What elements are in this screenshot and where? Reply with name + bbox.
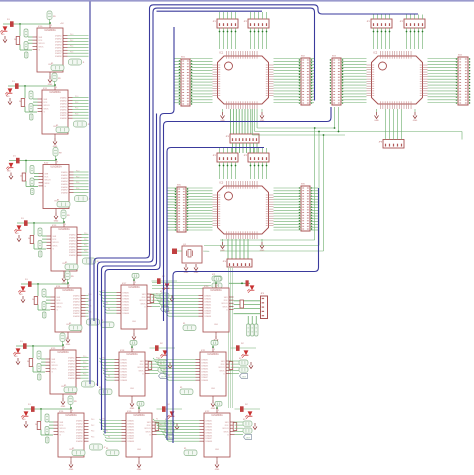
svg-text:P6: P6 — [168, 311, 170, 313]
svg-text:ULN2803A: ULN2803A — [58, 228, 70, 231]
svg-text:SRCLR: SRCLR — [60, 428, 67, 430]
svg-text:P3.6: P3.6 — [84, 251, 87, 253]
svg-text:9: 9 — [69, 285, 70, 287]
svg-text:P1.2: P1.2 — [75, 102, 78, 104]
svg-text:DRAIN5: DRAIN5 — [128, 431, 135, 434]
svg-text:P0: P0 — [156, 419, 158, 421]
svg-text:P2.4: P2.4 — [76, 182, 79, 184]
svg-text:DRAIN1: DRAIN1 — [123, 292, 130, 295]
svg-text:1k: 1k — [32, 299, 34, 301]
svg-text:GND: GND — [69, 469, 74, 471]
svg-text:P6.0: P6.0 — [91, 419, 94, 421]
svg-text:DRAIN5: DRAIN5 — [121, 370, 128, 373]
svg-text:1k: 1k — [28, 238, 30, 240]
svg-text:P2: P2 — [160, 364, 162, 366]
svg-text:GND: GND — [211, 408, 216, 410]
svg-text:SRCK: SRCK — [223, 306, 229, 308]
svg-text:P1.0: P1.0 — [75, 96, 78, 98]
svg-text:9: 9 — [133, 349, 134, 351]
svg-text:9: 9 — [64, 347, 65, 349]
svg-text:DRAIN2: DRAIN2 — [205, 297, 212, 300]
svg-text:DRAIN6: DRAIN6 — [206, 434, 213, 437]
svg-text:9: 9 — [135, 282, 136, 284]
svg-text:DRAIN4: DRAIN4 — [202, 367, 209, 370]
svg-text:DRAIN3: DRAIN3 — [60, 102, 67, 105]
svg-text:DRAIN3: DRAIN3 — [128, 425, 135, 428]
svg-text:SRCLR: SRCLR — [57, 303, 64, 305]
svg-text:DRAIN7: DRAIN7 — [202, 376, 209, 379]
svg-text:DRAIN4: DRAIN4 — [206, 428, 213, 431]
svg-text:1k: 1k — [35, 424, 37, 426]
svg-text:DRAIN8: DRAIN8 — [206, 440, 213, 443]
svg-text:DRAIN3: DRAIN3 — [69, 239, 76, 242]
svg-text:P2.2: P2.2 — [76, 176, 79, 178]
svg-text:P5.0: P5.0 — [83, 356, 86, 358]
svg-text:SRCK: SRCK — [52, 368, 58, 370]
svg-text:DRAIN4: DRAIN4 — [60, 105, 67, 108]
svg-text:DRAIN2: DRAIN2 — [202, 361, 209, 364]
svg-text:IC1: IC1 — [220, 52, 224, 55]
svg-text:P1.4: P1.4 — [75, 108, 78, 110]
svg-text:GND: GND — [260, 250, 265, 252]
svg-text:DRAIN6: DRAIN6 — [73, 309, 80, 312]
svg-text:ULN2803A: ULN2803A — [133, 414, 145, 417]
svg-text:P2.0: P2.0 — [76, 170, 79, 172]
svg-text:GND: GND — [215, 469, 220, 471]
svg-text:P6: P6 — [168, 436, 170, 438]
svg-text:SRCK: SRCK — [141, 303, 147, 305]
svg-text:DRAIN8: DRAIN8 — [128, 440, 135, 443]
svg-text:P4: P4 — [106, 303, 108, 305]
svg-text:DRAIN7: DRAIN7 — [68, 374, 75, 377]
svg-text:ULN2803A: ULN2803A — [57, 351, 69, 354]
svg-text:GND: GND — [194, 272, 199, 274]
svg-text:9: 9 — [72, 410, 73, 412]
svg-text:ULN2803A: ULN2803A — [62, 289, 74, 292]
svg-text:GND: GND — [130, 408, 135, 410]
svg-text:1k: 1k — [20, 176, 22, 178]
svg-text:DRAIN7: DRAIN7 — [128, 437, 135, 440]
svg-text:DRAIN3: DRAIN3 — [121, 364, 128, 367]
svg-text:DRAIN4: DRAIN4 — [55, 43, 62, 46]
svg-text:GND: GND — [137, 469, 142, 471]
svg-text:DRAIN5: DRAIN5 — [60, 108, 67, 111]
svg-text:DRAIN3: DRAIN3 — [61, 177, 68, 180]
svg-text:9: 9 — [218, 410, 219, 412]
svg-text:9: 9 — [56, 87, 57, 89]
svg-text:P2.6: P2.6 — [76, 188, 79, 190]
svg-text:P0.0: P0.0 — [70, 34, 73, 36]
svg-text:DRAIN7: DRAIN7 — [206, 437, 213, 440]
svg-text:SRCLR: SRCLR — [218, 367, 225, 369]
svg-text:SRCK: SRCK — [146, 431, 152, 433]
svg-text:ULN2803A: ULN2803A — [210, 289, 222, 292]
svg-text:J2: J2 — [88, 124, 90, 126]
svg-text:DRAIN1: DRAIN1 — [205, 295, 212, 298]
svg-text:DRAIN6: DRAIN6 — [69, 248, 76, 251]
svg-text:DRAIN2: DRAIN2 — [128, 422, 135, 425]
svg-text:GND: GND — [374, 120, 379, 122]
svg-text:DRAIN5: DRAIN5 — [55, 46, 62, 49]
svg-text:DRAIN3: DRAIN3 — [205, 300, 212, 303]
svg-text:P0: P0 — [103, 358, 105, 360]
svg-text:DRAIN6: DRAIN6 — [76, 434, 83, 437]
svg-text:P0: P0 — [103, 291, 105, 293]
svg-text:DRAIN1: DRAIN1 — [69, 234, 76, 237]
svg-text:DRAIN7: DRAIN7 — [123, 309, 130, 312]
svg-text:DRAIN1: DRAIN1 — [128, 420, 135, 423]
svg-text:DRAIN1: DRAIN1 — [121, 359, 128, 362]
svg-text:DRAIN6: DRAIN6 — [123, 306, 130, 309]
svg-text:P6.6: P6.6 — [91, 437, 94, 439]
svg-text:DRAIN8: DRAIN8 — [60, 117, 67, 120]
svg-text:9: 9 — [51, 25, 52, 27]
svg-text:9: 9 — [140, 410, 141, 412]
svg-text:1k: 1k — [27, 361, 29, 363]
svg-text:DRAIN1: DRAIN1 — [73, 295, 80, 298]
svg-text:ULN2803A: ULN2803A — [65, 414, 77, 417]
svg-text:9: 9 — [57, 162, 58, 164]
svg-text:DRAIN4: DRAIN4 — [205, 303, 212, 306]
svg-text:DRAIN6: DRAIN6 — [61, 186, 68, 189]
svg-text:DRAIN6: DRAIN6 — [55, 49, 62, 52]
svg-text:SRCK: SRCK — [53, 245, 59, 247]
svg-text:GND: GND — [130, 388, 135, 390]
svg-text:DRAIN7: DRAIN7 — [69, 251, 76, 254]
svg-text:ULN2803A: ULN2803A — [207, 353, 219, 356]
svg-text:DRAIN2: DRAIN2 — [61, 174, 68, 177]
svg-text:DRAIN1: DRAIN1 — [60, 97, 67, 100]
svg-text:GND: GND — [137, 449, 142, 451]
svg-text:DRAIN3: DRAIN3 — [206, 425, 213, 428]
svg-text:DRAIN1: DRAIN1 — [206, 420, 213, 423]
svg-text:DRAIN8: DRAIN8 — [205, 315, 212, 318]
svg-text:9: 9 — [214, 349, 215, 351]
svg-text:DRAIN6: DRAIN6 — [121, 373, 128, 376]
svg-text:DRAIN1: DRAIN1 — [61, 171, 68, 174]
svg-text:DRAIN7: DRAIN7 — [61, 189, 68, 192]
svg-text:GND: GND — [184, 272, 189, 274]
svg-text:DRAIN4: DRAIN4 — [68, 365, 75, 368]
svg-text:DRAIN8: DRAIN8 — [73, 315, 80, 318]
svg-text:DRAIN6: DRAIN6 — [68, 371, 75, 374]
svg-text:GND: GND — [214, 324, 219, 326]
svg-text:DRAIN6: DRAIN6 — [205, 309, 212, 312]
svg-text:GND: GND — [54, 221, 59, 223]
svg-text:DRAIN3: DRAIN3 — [55, 40, 62, 43]
svg-text:P1.6: P1.6 — [75, 114, 78, 116]
svg-text:P3.4: P3.4 — [84, 245, 87, 247]
svg-text:DRAIN3: DRAIN3 — [202, 364, 209, 367]
svg-text:DRAIN4: DRAIN4 — [121, 367, 128, 370]
svg-text:DRAIN3: DRAIN3 — [123, 297, 130, 300]
svg-text:P0.2: P0.2 — [70, 40, 73, 42]
svg-text:DRAIN7: DRAIN7 — [55, 52, 62, 55]
svg-text:DRAIN5: DRAIN5 — [61, 183, 68, 186]
svg-text:SRCLR: SRCLR — [39, 43, 46, 45]
svg-text:DRAIN1: DRAIN1 — [55, 35, 62, 38]
svg-text:P4: P4 — [164, 370, 166, 372]
svg-text:GND: GND — [220, 250, 225, 252]
svg-text:P6: P6 — [108, 436, 110, 438]
svg-text:SRCLR: SRCLR — [137, 367, 144, 369]
svg-text:16MHz: 16MHz — [203, 251, 209, 253]
svg-text:P0: P0 — [156, 358, 158, 360]
svg-text:P6.2: P6.2 — [91, 425, 94, 427]
svg-text:SRCK: SRCK — [45, 183, 51, 185]
svg-text:P5.2: P5.2 — [83, 362, 86, 364]
svg-text:DRAIN4: DRAIN4 — [69, 242, 76, 245]
svg-text:DRAIN2: DRAIN2 — [123, 294, 130, 297]
svg-text:ULN2803A: ULN2803A — [50, 166, 62, 169]
svg-text:P6.4: P6.4 — [91, 431, 94, 433]
svg-text:DRAIN3: DRAIN3 — [68, 362, 75, 365]
svg-text:DRAIN1: DRAIN1 — [76, 420, 83, 423]
svg-text:DRAIN7: DRAIN7 — [205, 312, 212, 315]
svg-text:SRCK: SRCK — [220, 370, 226, 372]
svg-text:DRAIN2: DRAIN2 — [73, 297, 80, 300]
svg-text:DRAIN2: DRAIN2 — [69, 236, 76, 239]
svg-text:P0: P0 — [156, 294, 158, 296]
svg-text:DRAIN8: DRAIN8 — [202, 379, 209, 382]
svg-text:GND: GND — [66, 344, 71, 346]
svg-text:P6: P6 — [108, 308, 110, 310]
svg-text:DRAIN5: DRAIN5 — [76, 431, 83, 434]
svg-text:DRAIN1: DRAIN1 — [202, 359, 209, 362]
svg-text:DRAIN6: DRAIN6 — [128, 434, 135, 437]
svg-text:IC3: IC3 — [220, 182, 224, 185]
svg-text:DRAIN8: DRAIN8 — [69, 254, 76, 257]
svg-text:DRAIN8: DRAIN8 — [68, 377, 75, 380]
svg-text:DRAIN5: DRAIN5 — [123, 303, 130, 306]
svg-text:SRCLR: SRCLR — [53, 242, 60, 244]
svg-text:SRCK: SRCK — [57, 306, 63, 308]
svg-text:DRAIN8: DRAIN8 — [55, 55, 62, 58]
svg-text:SRCLR: SRCLR — [45, 180, 52, 182]
svg-text:SRCLR: SRCLR — [221, 303, 228, 305]
svg-text:DRAIN8: DRAIN8 — [123, 312, 130, 315]
svg-text:DRAIN2: DRAIN2 — [121, 361, 128, 364]
svg-text:DRAIN2: DRAIN2 — [60, 99, 67, 102]
svg-text:P0.4: P0.4 — [70, 46, 73, 48]
svg-text:DRAIN7: DRAIN7 — [121, 376, 128, 379]
svg-text:ULN2803A: ULN2803A — [44, 29, 56, 32]
svg-text:SRCK: SRCK — [60, 431, 66, 433]
svg-text:ULN2803A: ULN2803A — [128, 286, 140, 289]
svg-text:GND: GND — [211, 388, 216, 390]
svg-text:P0.6: P0.6 — [70, 52, 73, 54]
svg-text:SRCK: SRCK — [39, 46, 45, 48]
svg-text:SRCK: SRCK — [44, 108, 50, 110]
svg-text:P6: P6 — [108, 375, 110, 377]
svg-text:P4: P4 — [164, 431, 166, 433]
svg-text:SRCLR: SRCLR — [144, 428, 151, 430]
svg-text:1k: 1k — [19, 101, 21, 103]
svg-text:DRAIN2: DRAIN2 — [68, 359, 75, 362]
svg-text:DRAIN7: DRAIN7 — [60, 114, 67, 117]
svg-text:DRAIN5: DRAIN5 — [73, 306, 80, 309]
svg-text:1k: 1k — [14, 39, 16, 41]
svg-text:DRAIN1: DRAIN1 — [68, 357, 75, 360]
svg-text:DRAIN2: DRAIN2 — [55, 37, 62, 40]
svg-text:DRAIN4: DRAIN4 — [76, 428, 83, 431]
svg-text:DRAIN3: DRAIN3 — [73, 300, 80, 303]
svg-text:P5.4: P5.4 — [83, 368, 86, 370]
svg-text:SRCLR: SRCLR — [52, 365, 59, 367]
svg-text:9: 9 — [65, 224, 66, 226]
svg-text:DRAIN2: DRAIN2 — [76, 422, 83, 425]
svg-text:GND: GND — [413, 120, 418, 122]
svg-text:ULN2803A: ULN2803A — [49, 91, 61, 94]
svg-text:SRCK: SRCK — [139, 370, 145, 372]
svg-text:DRAIN4: DRAIN4 — [123, 300, 130, 303]
svg-text:P6: P6 — [168, 375, 170, 377]
svg-text:DRAIN8: DRAIN8 — [61, 192, 68, 195]
svg-text:DRAIN7: DRAIN7 — [76, 437, 83, 440]
svg-text:DRAIN6: DRAIN6 — [202, 373, 209, 376]
svg-text:DRAIN5: DRAIN5 — [205, 306, 212, 309]
svg-text:9: 9 — [217, 285, 218, 287]
svg-text:P4: P4 — [164, 306, 166, 308]
svg-text:P4: P4 — [106, 370, 108, 372]
svg-text:GND: GND — [132, 321, 137, 323]
svg-text:P2: P2 — [160, 300, 162, 302]
svg-text:SRCLR: SRCLR — [222, 428, 229, 430]
svg-text:P4: P4 — [106, 431, 108, 433]
svg-text:DRAIN7: DRAIN7 — [73, 312, 80, 315]
svg-text:GND: GND — [215, 449, 220, 451]
svg-text:ULN2803A: ULN2803A — [211, 414, 223, 417]
svg-text:DRAIN5: DRAIN5 — [202, 370, 209, 373]
svg-text:IC2: IC2 — [374, 52, 378, 55]
svg-text:DRAIN2: DRAIN2 — [206, 422, 213, 425]
svg-text:SRCLR: SRCLR — [139, 300, 146, 302]
svg-text:DRAIN8: DRAIN8 — [121, 379, 128, 382]
svg-text:DRAIN5: DRAIN5 — [68, 368, 75, 371]
svg-text:SRCK: SRCK — [224, 431, 230, 433]
svg-text:DRAIN5: DRAIN5 — [69, 245, 76, 248]
svg-text:P3.2: P3.2 — [84, 239, 87, 241]
svg-text:DRAIN6: DRAIN6 — [60, 111, 67, 114]
svg-text:DRAIN4: DRAIN4 — [128, 428, 135, 431]
svg-text:P5.6: P5.6 — [83, 374, 86, 376]
svg-text:SRCLR: SRCLR — [44, 105, 51, 107]
svg-text:P3.0: P3.0 — [84, 233, 87, 235]
svg-text:P0: P0 — [103, 419, 105, 421]
svg-text:DRAIN4: DRAIN4 — [61, 180, 68, 183]
svg-text:DRAIN3: DRAIN3 — [76, 425, 83, 428]
svg-text:GND: GND — [61, 406, 66, 408]
svg-text:DRAIN4: DRAIN4 — [73, 303, 80, 306]
svg-text:ULN2803A: ULN2803A — [126, 353, 138, 356]
svg-text:J1: J1 — [83, 62, 85, 64]
svg-text:P2: P2 — [160, 425, 162, 427]
svg-text:DRAIN5: DRAIN5 — [206, 431, 213, 434]
svg-text:DRAIN8: DRAIN8 — [76, 440, 83, 443]
